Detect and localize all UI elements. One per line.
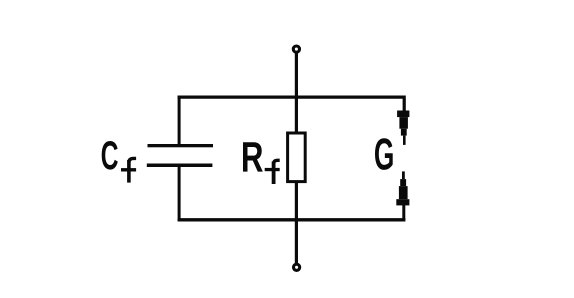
- label Rf: [243, 142, 280, 184]
- label G: [375, 138, 393, 170]
- spark gap G bottom electrode (arrow pointing up): [396, 171, 409, 205]
- resistor Rf body: [288, 133, 306, 182]
- wire: left branch lower (capacitor bottom plate to bottom rail): [178, 165, 181, 222]
- terminal (bottom): [294, 264, 300, 270]
- wire: right branch lower (bottom electrode to bottom rail): [402, 205, 405, 221]
- wire: top vertical lead from terminal to top rail: [295, 52, 298, 99]
- label Cf: [102, 141, 136, 183]
- wire: top rail: [178, 95, 406, 98]
- wire: left branch upper (rail to capacitor top plate): [178, 96, 181, 147]
- spark gap G top electrode (arrow pointing down): [397, 111, 409, 145]
- wire: bottom rail: [178, 218, 406, 221]
- wire: middle branch vertical (through resistor): [295, 97, 298, 263]
- capacitor Cf top plate: [148, 144, 214, 147]
- terminal (top): [293, 46, 299, 52]
- wire: right branch upper (rail to top electrode): [403, 96, 406, 113]
- capacitor Cf bottom plate: [147, 164, 213, 168]
